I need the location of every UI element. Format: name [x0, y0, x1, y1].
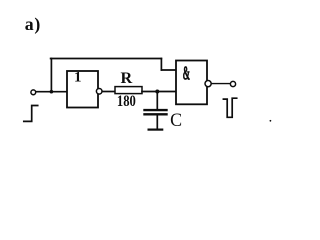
svg-text:180: 180 [117, 93, 136, 110]
svg-text:1: 1 [74, 70, 82, 86]
svg-text:C: C [170, 109, 182, 131]
svg-text:&: & [183, 63, 190, 85]
svg-text:a): a) [25, 14, 41, 35]
svg-text:R: R [121, 69, 133, 87]
